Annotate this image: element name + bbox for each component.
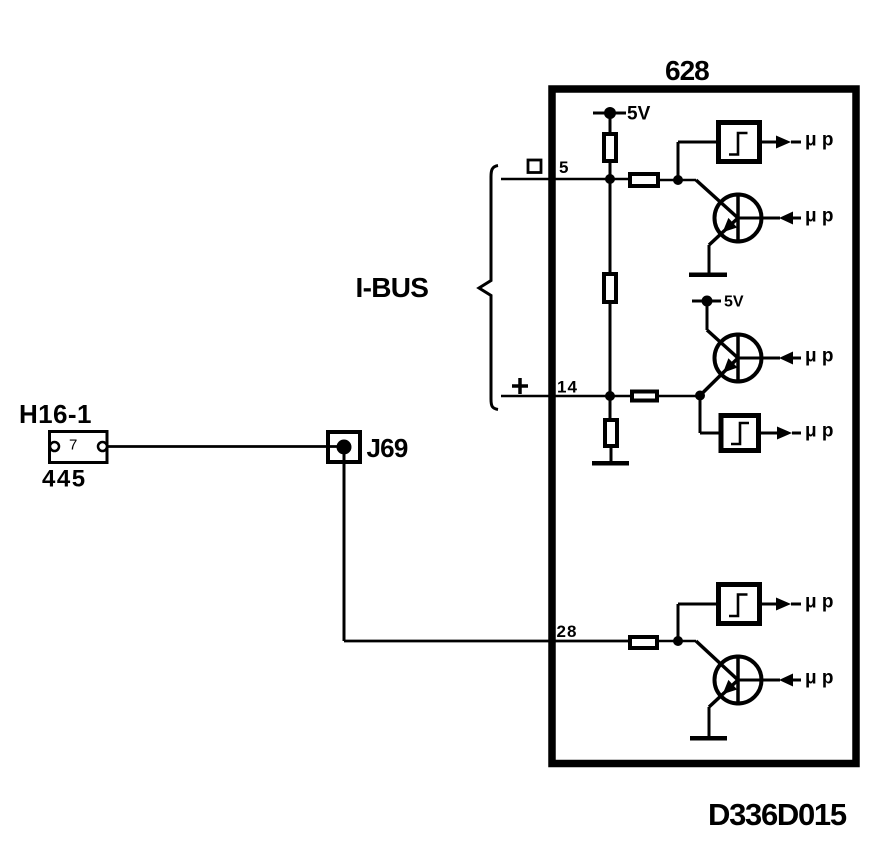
svg-text:J69: J69 [367,433,408,463]
svg-text:28: 28 [557,622,578,641]
svg-text:445: 445 [42,466,87,493]
svg-text:μ p: μ p [805,592,834,613]
svg-text:μ p: μ p [805,668,834,689]
svg-text:μ p: μ p [805,130,834,151]
svg-text:μ p: μ p [805,346,834,367]
svg-text:5V: 5V [724,294,744,311]
svg-text:I-BUS: I-BUS [356,272,429,303]
svg-text:5: 5 [559,158,568,177]
svg-text:μ p: μ p [805,421,834,442]
svg-text:H16-1: H16-1 [19,399,92,429]
svg-text:μ p: μ p [805,206,834,227]
svg-text:14: 14 [557,378,578,397]
svg-text:7: 7 [69,437,77,454]
svg-text:D336D015: D336D015 [708,797,847,832]
svg-text:5V: 5V [627,104,651,125]
svg-text:628: 628 [665,55,709,86]
